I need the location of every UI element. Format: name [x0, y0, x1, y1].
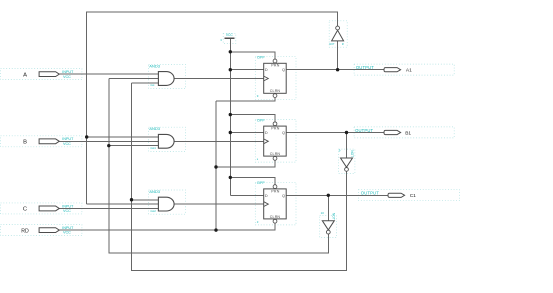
svg-text:INPUT: INPUT: [62, 70, 74, 74]
junction VCC to DFF1 PRN: [229, 50, 232, 53]
svg-text:DFF: DFF: [257, 55, 265, 60]
svg-text:CLRN: CLRN: [270, 215, 281, 219]
D flip-flop DFF3: [257, 180, 286, 224]
selection box output pin A1: [354, 64, 454, 75]
svg-text:AND3: AND3: [149, 126, 160, 131]
svg-text:Q: Q: [282, 131, 285, 135]
selection box inverter U6: [320, 215, 337, 237]
junction Q3 to inverter U6: [327, 194, 330, 197]
selection box inverter U5: [339, 149, 355, 173]
output pin B1: [384, 130, 411, 136]
svg-text:VCC: VCC: [63, 209, 71, 213]
selection box output pin C1: [358, 190, 459, 201]
svg-text:NOT: NOT: [332, 213, 336, 220]
wire VCC to DFF3 PRN: [230, 177, 275, 184]
wire DFF2 Q to output pin B1: [286, 132, 384, 134]
AND3 gate 2 (row B): [149, 126, 174, 150]
wire pin B to AND3 gate2 middle input: [59, 140, 158, 142]
wire DFF1 Q to output pin A1: [286, 69, 384, 71]
selection box input pin RD: [1, 225, 82, 236]
junction VCC to DFF2 D: [229, 131, 232, 134]
power symbol VCC: [220, 33, 234, 42]
svg-text:Q: Q: [282, 194, 285, 198]
input pin A: [23, 70, 74, 79]
D flip-flop DFF1: [257, 55, 286, 99]
selection box AND3 gate 3: [149, 190, 186, 214]
wire DFF3 Q to output pin C1: [286, 194, 388, 196]
wire AND3 gate3 output to DFF3 clock: [174, 203, 264, 205]
wire NOT_B1 to AND3 gate1 bottom input: [132, 82, 159, 84]
svg-text:DFF: DFF: [257, 180, 265, 185]
svg-text:PRN: PRN: [271, 64, 279, 68]
wire VCC to DFF2 D: [230, 132, 263, 134]
selection box inverter U4: [329, 21, 347, 47]
selection box DFF 1: [255, 57, 296, 100]
svg-text:C1: C1: [410, 193, 416, 199]
selection box input pin C: [1, 203, 82, 214]
junction NOT_A1 to gate2 top input: [85, 135, 88, 138]
svg-text:PRN: PRN: [271, 189, 279, 193]
svg-text:AND3: AND3: [149, 189, 160, 194]
AND3 gate 3 (row C): [149, 189, 174, 213]
selection box VCC symbol: [223, 33, 236, 43]
wire VCC to DFF1 D: [230, 69, 263, 71]
wire NOT_B1 to AND3 gate3 top input: [132, 199, 159, 201]
svg-text:Q: Q: [282, 68, 285, 72]
junction VCC to DFF1 D: [229, 68, 232, 71]
svg-text:AND3: AND3: [149, 63, 160, 68]
svg-text:CLRN: CLRN: [270, 89, 281, 93]
svg-text:A1: A1: [406, 68, 412, 74]
wire NOT_C1 to AND3 gate2 bottom input: [109, 145, 159, 147]
selection box output pin B1: [354, 127, 454, 138]
wire VCC to DFF3 D: [230, 194, 263, 196]
wire inverter U6 input: [327, 195, 329, 220]
wire NOT_C1 to AND3 gate1 middle input: [109, 78, 159, 80]
svg-text:D: D: [265, 194, 268, 198]
wire DFF1 CLRN stub: [216, 98, 275, 101]
input pin B: [23, 137, 74, 146]
svg-text:B1: B1: [405, 130, 411, 136]
selection box input pin A: [1, 69, 82, 80]
svg-text:NOT: NOT: [329, 43, 335, 46]
output pin C1: [388, 193, 416, 199]
svg-text:DFF: DFF: [257, 117, 265, 122]
wire NOT_A1 feedback top: [87, 12, 338, 137]
svg-text:OUTPUT: OUTPUT: [361, 191, 379, 196]
wire AND3 gate1 output to DFF1 clock: [174, 78, 264, 80]
selection box DFF 2: [255, 120, 296, 163]
svg-text:CLRN: CLRN: [270, 152, 281, 156]
svg-text:NOT: NOT: [350, 150, 354, 157]
svg-text:D: D: [265, 68, 268, 72]
selection box AND3 gate 2: [149, 127, 186, 151]
wire inverter U5 input: [346, 133, 348, 159]
junction Q1 to inverter U4: [336, 68, 339, 71]
wire VCC to DFF2 PRN: [230, 115, 275, 122]
svg-text:VCC: VCC: [63, 142, 71, 146]
junction CLRN bus DFF2: [214, 165, 217, 168]
selection box input pin B: [1, 136, 82, 147]
wire NOT_B1 feedback vertical: [132, 83, 347, 271]
wire AND3 gate2 output to DFF2 clock: [174, 140, 264, 142]
AND3 gate 1 (row A): [149, 63, 174, 87]
wire NOT_A1 feedback lower segment: [86, 137, 88, 204]
wire CLRN bus vertical: [215, 101, 217, 230]
input pin RD: [21, 226, 74, 235]
wire DFF2 CLRN stub: [216, 161, 275, 167]
junction CLRN bus RD: [214, 228, 217, 231]
svg-text:RD: RD: [21, 228, 29, 234]
wire VCC stem: [229, 38, 231, 195]
svg-text:VCC: VCC: [226, 33, 234, 37]
output pin A1: [384, 68, 412, 74]
svg-text:INPUT: INPUT: [62, 204, 74, 208]
selection box DFF 3: [255, 182, 296, 225]
inverter U4 (NOT, feedback of A1): [329, 26, 344, 46]
wire VCC to DFF1 PRN: [230, 52, 275, 59]
svg-text:A: A: [23, 72, 27, 78]
wire NOT_C1 feedback vertical: [109, 79, 328, 254]
wire NOT_A1 to AND3 gate2 top input: [87, 136, 159, 138]
svg-text:INPUT: INPUT: [62, 137, 74, 141]
wire pin RD to DFF3 CLRN: [59, 223, 275, 230]
wire NOT_A1 to AND3 gate3 middle input: [87, 203, 159, 205]
svg-text:OUTPUT: OUTPUT: [355, 128, 373, 133]
inverter U6 (NOT, feedback of C1): [321, 211, 336, 234]
svg-text:OUTPUT: OUTPUT: [356, 65, 374, 70]
junction VCC to DFF3 PRN: [229, 176, 232, 179]
svg-text:inst: inst: [150, 83, 154, 87]
junction VCC to DFF2 PRN: [229, 113, 232, 116]
svg-text:10: 10: [321, 211, 325, 215]
D flip-flop DFF2: [257, 117, 286, 161]
inverter U5 (NOT, feedback of B1): [339, 148, 354, 171]
svg-text:inst2: inst2: [150, 209, 156, 213]
junction NOT_C1 to gate2 bottom input: [107, 144, 110, 147]
svg-text:PRN: PRN: [271, 127, 279, 131]
wire pin C to AND3 gate3 bottom input: [59, 207, 158, 209]
svg-text:B: B: [23, 139, 27, 145]
svg-text:C: C: [23, 207, 27, 213]
junction NOT_B1 to gate3 top input: [130, 198, 133, 201]
wire inverter U4 input: [337, 41, 339, 70]
svg-text:D: D: [265, 131, 268, 135]
svg-text:VCC: VCC: [63, 75, 71, 79]
wire pin A to AND3 gate1 top input: [59, 73, 158, 75]
svg-text:VCC: VCC: [63, 231, 71, 235]
svg-text:INPUT: INPUT: [62, 226, 74, 230]
junction Q2 to inverter U5: [345, 131, 348, 134]
input pin C: [23, 204, 74, 213]
selection box AND3 gate 1: [149, 64, 186, 88]
svg-text:inst1: inst1: [150, 146, 156, 150]
